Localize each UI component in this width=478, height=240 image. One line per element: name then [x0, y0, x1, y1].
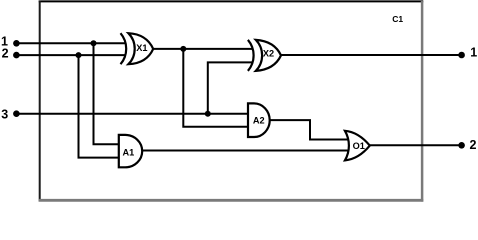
svg-text:X2: X2	[263, 48, 274, 58]
svg-text:C1: C1	[392, 14, 403, 24]
svg-text:A2: A2	[253, 116, 265, 126]
svg-text:X1: X1	[136, 43, 147, 53]
svg-text:1: 1	[470, 46, 477, 60]
svg-text:O1: O1	[353, 141, 365, 151]
svg-text:3: 3	[1, 108, 8, 122]
svg-text:2: 2	[2, 46, 9, 60]
svg-text:A1: A1	[123, 147, 135, 157]
svg-text:2: 2	[470, 138, 477, 152]
